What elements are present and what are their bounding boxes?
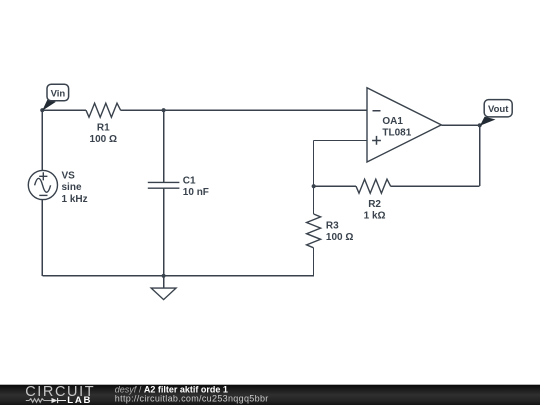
junction dot output node [478,123,482,127]
wire node to R3 top [313,186,315,214]
svg-text:R3: R3 [326,220,339,231]
node flag Vout [480,100,512,126]
svg-text:R1: R1 [97,123,110,134]
svg-text:R2: R2 [368,199,381,210]
wire op-amp non-inverting input [314,140,368,142]
wire Vin node to R1 left [42,109,86,111]
logo diode [52,398,67,403]
svg-text:VS: VS [62,170,76,181]
footer url [115,394,269,404]
svg-text:Vin: Vin [51,88,66,99]
svg-text:10 nF: 10 nF [183,187,209,198]
svg-text:sine: sine [62,182,82,193]
resistor R2 [356,179,391,193]
svg-text:http://circuitlab.com/cu253nqg: http://circuitlab.com/cu253nqgq5bbr [115,394,269,404]
junction dot feedback node [312,184,316,188]
node flag Vin [42,84,68,111]
junction dot node Vin [40,108,44,112]
R1 value labels [90,123,117,145]
wire VS bottom down to bottom rail [41,200,43,276]
wire bottom rail [42,275,314,277]
op-amp OA1 [367,88,441,162]
junction dot C1 top [162,108,166,112]
logo waveform resistor [26,399,52,403]
ground [151,276,176,300]
svg-text:1 kΩ: 1 kΩ [364,211,386,222]
VS value labels [62,170,88,205]
wire C1 top lead [163,110,165,182]
wire output vertical [479,125,481,186]
wire R1 right to op-amp inverting input [121,109,367,111]
logo LAB [67,395,92,405]
svg-text:OA1: OA1 [382,116,403,127]
wire R3 bottom to bottom rail [313,248,315,276]
resistor R1 [86,103,121,117]
OA1 labels [382,116,411,138]
junction dot ground node [162,274,166,278]
wire Vin node down to VS top [41,110,43,170]
svg-text:LAB: LAB [67,395,92,405]
wire feedback vertical [313,141,315,187]
voltage source VS [28,170,57,199]
CircuitLab logo CIRCUIT [25,384,95,400]
resistor R3 [307,214,321,248]
capacitor C1 [148,182,180,188]
C1 value labels [183,176,209,199]
svg-text:100 Ω: 100 Ω [90,134,117,145]
wire R2 right to output vertical [391,185,480,187]
R2 value labels [364,199,386,221]
R3 value labels [326,220,353,242]
wire node to R2 left [314,185,357,187]
wire op-amp output [441,124,479,126]
svg-text:C1: C1 [183,176,196,187]
svg-text:Vout: Vout [488,104,509,115]
wire C1 bottom lead [163,188,165,276]
svg-text:100 Ω: 100 Ω [326,232,353,243]
svg-text:1 kHz: 1 kHz [62,194,88,205]
footer title [115,385,228,395]
svg-text:TL081: TL081 [382,127,411,138]
